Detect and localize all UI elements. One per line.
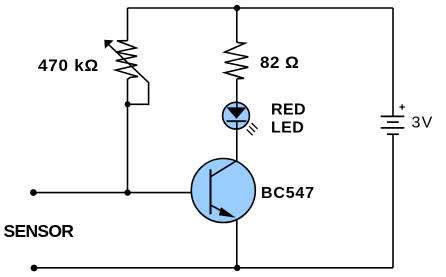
transistor Q1 base bar [210,169,212,214]
wire LED anode inside [236,102,238,108]
battery B1 plate short bottom [387,133,399,135]
LED D1 triangle [227,107,247,118]
node emitter bottom junction dot [234,265,240,271]
svg-text:3V: 3V [412,115,434,132]
wire left rail upper [127,8,129,41]
potentiometer R1 470k zigzag [116,41,138,79]
svg-text:SENSOR: SENSOR [4,221,75,241]
battery B1 plate long top [381,115,405,117]
node sensor upper contact dot [30,189,37,196]
wire bottom rail [34,267,393,269]
wire top rail [128,7,394,9]
wire right rail lower [392,134,394,268]
transistor Q1 BC547 body circle [191,159,255,223]
wire left rail lower [127,104,129,192]
wire LED cathode to transistor collector [236,121,238,161]
LED D1 cathode bar [227,120,247,122]
wire base (sensor upper) [33,192,191,194]
battery B1 plate long bottom [381,127,405,129]
battery B1 plate short [387,121,399,123]
wire pot bottom lead [127,79,129,105]
svg-text:LED: LED [271,119,304,136]
resistor R2 82 ohm zigzag [225,42,249,78]
svg-text:BC547: BC547 [261,185,315,202]
potentiometer R1 wiper arrowhead [104,40,113,49]
wire right rail upper [392,8,394,116]
node top junction dot [234,5,240,11]
LED D1 body circle [223,102,250,129]
battery plus sign [399,104,404,109]
potentiometer R1 wiper arrow line [107,43,148,104]
svg-text:82 Ω: 82 Ω [260,53,299,72]
svg-text:470 kΩ: 470 kΩ [38,56,99,75]
transistor Q1 emitter lead [211,205,233,217]
LED D1 light rays [247,123,258,135]
svg-text:RED: RED [271,101,306,118]
transistor Q1 emitter arrowhead [219,207,236,217]
wire emitter down [236,220,238,268]
wire resistor to LED [236,79,238,103]
transistor Q1 collector lead [211,160,238,176]
node pot wiper junction dot [125,101,131,107]
node base junction dot [124,189,130,195]
node sensor lower contact dot [31,265,38,272]
wire mid rail to resistor [236,8,238,42]
